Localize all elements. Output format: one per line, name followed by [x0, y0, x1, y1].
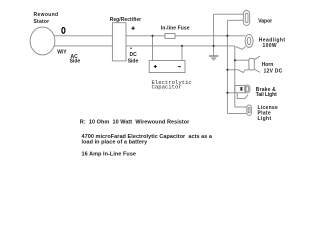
svg-text:Capacitor: Capacitor: [152, 83, 182, 90]
label: G wire: [62, 28, 65, 34]
wire: rectifier - output (ground run): [126, 45, 235, 47]
wire: stator to rectifier bottom (AC): [54, 45, 112, 47]
wire: capacitor + lead up to +12V wire: [152, 36, 154, 61]
wire: return bus B: [234, 46, 236, 107]
rewound stator G1 circle: [30, 27, 55, 55]
svg-text:R: 10 Ohm 10 Watt Wirewound: R: 10 Ohm 10 Watt Wirewound Resistor: [80, 120, 190, 126]
horn switch S2: [238, 70, 249, 73]
label: + terminal: [131, 26, 134, 30]
node: horn branch on +12V bus: [226, 69, 228, 71]
svg-text:Light: Light: [258, 116, 272, 122]
wire: return bus to horn top: [235, 59, 249, 61]
svg-text:12V DC: 12V DC: [264, 68, 283, 74]
junction dots: [152, 35, 237, 94]
brake light box: [235, 86, 246, 93]
svg-text:100W: 100W: [263, 43, 277, 49]
wire: rectifier + output to fuse: [126, 35, 165, 37]
brake filament mark: [240, 87, 243, 91]
label: capacitor -: [178, 66, 181, 68]
node: ground bus joins ground wire: [213, 45, 215, 47]
wire: +12V bus horn branch: [227, 69, 238, 71]
wire: +12V bus to vapor bottom lead: [227, 19, 243, 21]
svg-text:load in place of a battery: load in place of a battery: [82, 139, 149, 145]
headlight lamp DS2: [245, 34, 253, 47]
wire: fuse to headlight (+12V): [175, 35, 245, 37]
ground bus wire: [213, 14, 215, 55]
ground symbol: [209, 56, 218, 60]
node: brake branch on +12V bus: [226, 92, 228, 94]
wire: brake loop: [237, 93, 248, 99]
wire: +12V bus to license bottom lead: [227, 112, 247, 114]
wire: +12V bus brake branch: [227, 92, 234, 94]
in-line fuse F1: [165, 34, 175, 39]
node: cap + on +12V wire: [152, 35, 154, 37]
wire: stator to rectifier top (AC): [54, 35, 112, 37]
capacitor C1 box: [149, 61, 185, 73]
svg-text:Side: Side: [128, 59, 139, 65]
svg-text:Rewound: Rewound: [34, 12, 59, 18]
brake & tail lamp DS3: [245, 85, 250, 93]
svg-text:Tail Light: Tail Light: [256, 92, 277, 98]
label: - terminal: [130, 47, 132, 49]
horn LS1: [249, 58, 254, 70]
svg-text:In-line Fuse: In-line Fuse: [161, 26, 190, 32]
svg-text:W/Y: W/Y: [57, 50, 67, 56]
wire: return bus to license top lead: [235, 106, 247, 108]
node: horn top on return bus: [234, 59, 236, 61]
label: capacitor +: [154, 65, 157, 68]
vapor lamp DS1: [243, 11, 249, 26]
svg-text:Stator: Stator: [34, 19, 50, 25]
+12V bus wire: [226, 20, 228, 113]
wire: capacitor - lead to ground wire: [181, 46, 183, 61]
svg-text:16 Amp In-Line Fuse: 16 Amp In-Line Fuse: [82, 152, 137, 158]
node: +12V bus joins +12V wire: [226, 35, 228, 37]
reg/rectifier box: [112, 23, 126, 61]
svg-text:Vapor: Vapor: [258, 18, 272, 24]
svg-text:Reg/Rectifier: Reg/Rectifier: [110, 17, 142, 23]
node: cap - on ground wire: [181, 45, 183, 47]
svg-text:DC: DC: [130, 52, 138, 58]
svg-text:Horn: Horn: [262, 62, 274, 68]
license plate lamp DS4: [247, 105, 252, 115]
svg-text:Side: Side: [70, 59, 81, 65]
headlight switch S1: [236, 47, 246, 50]
wire: ground bus to vapor top lead: [214, 13, 244, 15]
